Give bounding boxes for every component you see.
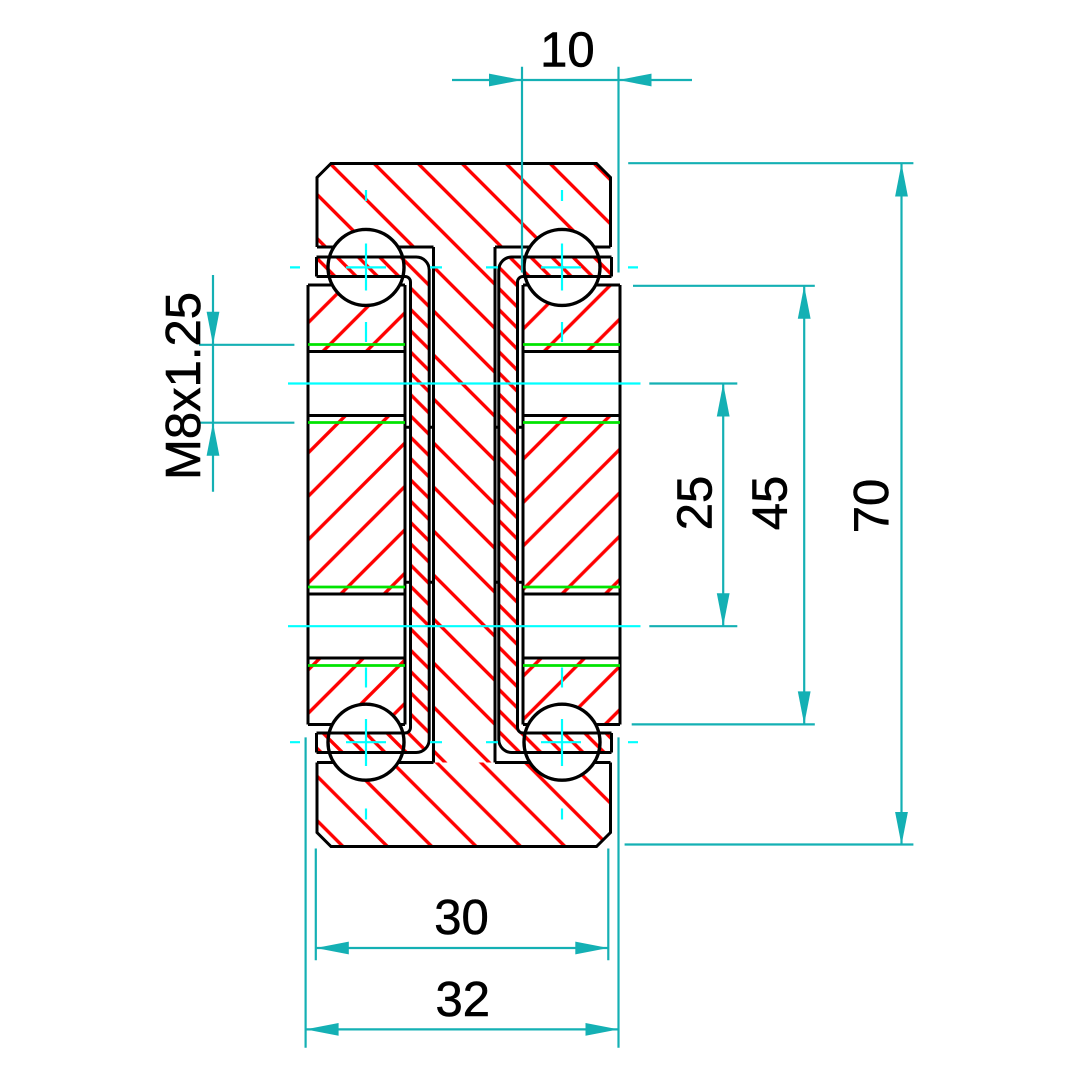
- hatch bottom flange of stud: [317, 763, 611, 847]
- svg-text:30: 30: [434, 891, 489, 945]
- gap bridge ticks beside column: [405, 426, 523, 429]
- hatch right bent-plate C-channel: [499, 257, 612, 753]
- dim 32 extension lines: [306, 737, 619, 1047]
- svg-text:70: 70: [845, 479, 899, 534]
- dim 45 line: [803, 286, 805, 725]
- ball bottom-right: [524, 704, 600, 780]
- svg-text:M8x1.25: M8x1.25: [157, 292, 211, 480]
- outline top flange: [317, 164, 611, 248]
- dim 30 line: [316, 947, 609, 949]
- arrows dim 25 (inside): [717, 384, 730, 417]
- hatch left block section 3: [308, 658, 405, 725]
- arrows dim 32 (inside): [306, 1023, 339, 1036]
- right block thread minor lines: [523, 352, 620, 659]
- ball top-right: [524, 229, 600, 305]
- hatch right block section 3: [523, 658, 620, 725]
- column right edge: [494, 247, 497, 763]
- right plate outline: [610, 257, 613, 753]
- hatch center column of stud: [434, 247, 496, 763]
- dim 25 line: [722, 384, 724, 627]
- dim 10 extension lines: [522, 67, 619, 273]
- left plate outline: [315, 257, 318, 753]
- dim M8 line: [212, 275, 214, 492]
- svg-text:45: 45: [744, 476, 798, 531]
- ball vertical centerline bottom-right: [561, 668, 563, 820]
- green thread major lines left block: [308, 345, 405, 666]
- hatch top flange of stud: [317, 164, 611, 248]
- svg-text:25: 25: [669, 476, 723, 531]
- dim 10 line: [452, 79, 692, 81]
- hatch left block section 2: [308, 416, 405, 595]
- arrows dim 70 (inside): [895, 164, 908, 197]
- arrows dim M8 (outside): [207, 312, 220, 345]
- left block thread minor lines: [308, 352, 405, 659]
- white ball masks: [328, 229, 404, 305]
- centerline hole axis 1: [288, 382, 641, 384]
- dim 70 line: [900, 164, 902, 846]
- dim 32 line: [306, 1028, 619, 1030]
- hatch left bent-plate C-channel: [317, 257, 430, 753]
- right block outline: [523, 285, 620, 725]
- hatch right block section 2: [523, 416, 620, 595]
- ball horizontal centerline bottom: [290, 741, 638, 743]
- arrows dim 45 (inside): [798, 286, 811, 319]
- arrows dim 30 (inside): [316, 942, 349, 955]
- svg-text:10: 10: [540, 24, 595, 78]
- left block outline: [308, 285, 405, 725]
- centerline hole axis 2: [288, 625, 641, 627]
- ball horizontal centerline top: [290, 266, 638, 268]
- green thread major lines right block: [523, 345, 620, 666]
- dim 30 extension lines: [316, 849, 609, 961]
- dim 25 extension lines: [649, 384, 737, 627]
- hatch left block section 1: [308, 285, 405, 352]
- bottom flange top edge segments: [317, 761, 611, 764]
- ball top-left: [328, 229, 404, 305]
- top flange bottom edge segments: [317, 246, 611, 249]
- dim 70 extension lines: [625, 163, 914, 844]
- ball vertical centerline top-right: [561, 190, 563, 342]
- ball bottom-left: [328, 704, 404, 780]
- column left edge: [432, 247, 435, 763]
- dim 45 extension lines: [632, 286, 815, 725]
- ball vertical centerline top-left: [365, 190, 367, 342]
- arrows dim 10 (outside): [489, 74, 522, 87]
- outline bottom flange: [317, 763, 611, 847]
- hatch right block section 1: [523, 285, 620, 352]
- dim M8 extension lines: [199, 345, 294, 423]
- svg-text:32: 32: [435, 973, 490, 1027]
- ball vertical centerline bottom-left: [365, 668, 367, 820]
